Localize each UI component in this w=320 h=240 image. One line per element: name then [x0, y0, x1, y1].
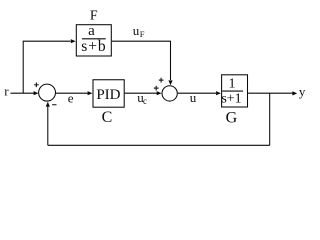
svg-text:e: e — [68, 91, 74, 106]
svg-text:a: a — [88, 23, 95, 39]
block G (plant 1/(s+1)) — [222, 75, 248, 107]
svg-text:u: u — [190, 90, 197, 105]
arrowhead into block F — [71, 39, 76, 43]
summing junction S2 — [162, 86, 177, 101]
svg-text:y: y — [299, 84, 306, 99]
arrowhead into S1 from below — [46, 102, 50, 107]
wire: u_c from PID to summing junction S2 — [125, 92, 157, 94]
plus sign at S1 — [34, 83, 39, 88]
wire: error e from S1 to PID — [56, 92, 88, 94]
wire: F output u_F to summing junction S2 — [112, 41, 171, 80]
summing junction S1 — [39, 84, 56, 101]
plus sign at S2 (top input) — [159, 78, 164, 83]
svg-text:C: C — [102, 109, 113, 126]
arrowhead into summing junction S2 from top — [168, 80, 172, 85]
wire: r input to summing junction S1 — [11, 92, 35, 94]
arrowhead into summing junction S1 — [34, 91, 39, 95]
svg-text:F: F — [90, 9, 98, 24]
svg-text:F: F — [140, 29, 145, 39]
minus sign at S1 — [52, 104, 56, 106]
svg-text:PID: PID — [96, 87, 120, 103]
arrowhead into PID block — [88, 91, 93, 95]
wire: feedback takeoff down from output — [269, 93, 271, 145]
wire: u from S2 to plant G — [178, 92, 216, 94]
wire: feedback bottom run — [48, 144, 270, 146]
wire: branch from r up to feedforward block F — [23, 41, 70, 93]
svg-text:s+b: s+b — [81, 38, 106, 55]
svg-text:c: c — [143, 96, 147, 106]
plus sign at S2 (left input) — [154, 86, 159, 91]
wire: output y from G — [248, 92, 292, 94]
arrowhead into block G — [216, 91, 221, 95]
fraction bar of F — [82, 38, 106, 40]
arrowhead to output y — [292, 91, 297, 95]
wire: feedback up into summing junction S1 — [47, 107, 49, 146]
svg-text:s+1: s+1 — [221, 92, 241, 107]
block PID (controller) — [93, 80, 124, 107]
block F (feedforward a/(s+b)) — [76, 25, 111, 56]
svg-text:1: 1 — [229, 77, 236, 92]
fraction bar of G — [222, 90, 243, 92]
arrowhead into summing junction S2 from left — [157, 91, 162, 95]
svg-text:r: r — [4, 84, 9, 99]
svg-text:G: G — [226, 110, 238, 127]
